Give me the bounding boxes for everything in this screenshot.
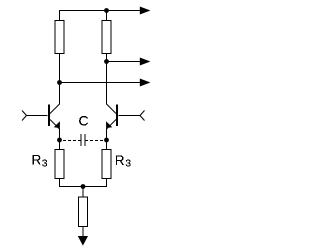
- wire left collector output line: [60, 82, 142, 84]
- arrow output supply rail: [140, 7, 151, 15]
- terminal right input: [140, 111, 145, 121]
- wire left R3 bottom: [59, 179, 61, 187]
- wire left resistor bottom to collector: [59, 54, 61, 105]
- wire right base lead: [119, 115, 141, 117]
- wire right R3 bottom: [106, 179, 108, 187]
- svg-text:R3: R3: [115, 153, 131, 169]
- node junction right collector: [104, 59, 109, 64]
- wire dashed node to capacitor left: [62, 140, 82, 142]
- wire left node to R3: [59, 140, 61, 150]
- transistor Q1 left (NPN): [48, 104, 60, 129]
- svg-text:R3: R3: [32, 153, 48, 170]
- capacitor C left plate: [80, 134, 82, 146]
- wire left base lead: [27, 115, 48, 117]
- arrow output left collector: [140, 79, 151, 87]
- wire left emitter down to node: [59, 128, 61, 140]
- node junction right emitter: [104, 138, 109, 143]
- resistor left load: [55, 21, 64, 54]
- wire right collector output line: [107, 61, 142, 63]
- wire dashed capacitor to node right: [85, 140, 105, 142]
- wire top supply rail: [59, 10, 141, 12]
- node junction top rail: [104, 8, 109, 13]
- resistor R3 left: [55, 150, 64, 179]
- arrow output right collector: [140, 58, 151, 66]
- wire left collector column top: [59, 11, 61, 21]
- transistor Q2 right (NPN): [106, 104, 118, 129]
- terminal left input: [22, 111, 27, 121]
- svg-text:C: C: [79, 113, 89, 129]
- wire tail resistor to ground: [82, 227, 84, 237]
- wire right collector column top: [106, 11, 108, 21]
- resistor tail: [79, 197, 88, 227]
- resistor right load: [102, 21, 111, 54]
- wire bottom emitter rail: [59, 186, 107, 188]
- node junction left collector: [57, 80, 62, 85]
- ground arrow tail current: [78, 236, 88, 246]
- resistor R3 right: [102, 150, 111, 179]
- wire tail node to resistor: [82, 187, 84, 198]
- node junction tail: [81, 184, 86, 189]
- wire right resistor bottom to collector: [106, 54, 108, 105]
- capacitor C right plate: [84, 134, 86, 146]
- node junction left emitter: [57, 138, 62, 143]
- wire right emitter down to node: [106, 128, 108, 140]
- wire right node to R3: [106, 140, 108, 150]
